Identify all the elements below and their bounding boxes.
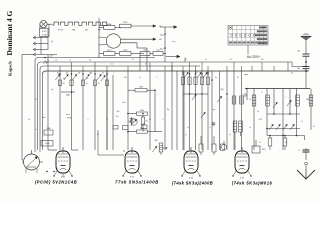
dial lamp L1 [40, 21, 47, 28]
pot P1 [131, 119, 137, 125]
tube V4 [235, 148, 249, 173]
svg-text:a-re: a-re [54, 60, 57, 62]
if2 string x241.5 [241, 71, 243, 150]
wire string x113 [113, 75, 118, 150]
T1 pins [26, 169, 37, 174]
coil L6 [240, 96, 244, 104]
rail bus right drop [184, 58, 186, 63]
tube V1 pins [53, 171, 72, 177]
table caption [247, 55, 261, 59]
svg-text:Гб: Гб [291, 73, 293, 75]
if string x183 [181, 71, 184, 150]
wire string x177 [176, 71, 178, 150]
IF transformer T3 [233, 121, 242, 150]
svg-text:10: 10 [237, 77, 239, 79]
earth arrow [297, 169, 315, 179]
right string x311 [309, 89, 313, 131]
if2 string x234 [233, 71, 235, 150]
resistor R50 [199, 136, 203, 155]
wire tube1 top [62, 147, 64, 150]
antenna lead [305, 40, 307, 50]
svg-text:2k: 2k [146, 121, 148, 123]
wire to U1 upper [99, 36, 106, 39]
resistor R41 [41, 141, 53, 147]
terminal arrow b [152, 38, 162, 41]
svg-text:5n: 5n [205, 59, 207, 61]
right bus [245, 88, 310, 90]
mid2 marks [211, 79, 228, 102]
right string x274 [273, 89, 278, 115]
rail bus 4 main [43, 71, 310, 150]
rail bus 3 [40, 66, 200, 70]
if2 string x219.5 [219, 71, 221, 150]
pickup input arrow 1 [33, 36, 48, 39]
svg-text:5n: 5n [116, 116, 118, 118]
node dot right1 [305, 61, 307, 63]
if string x208 [206, 71, 209, 150]
capacitor C40 [298, 148, 310, 160]
svg-text:2n: 2n [69, 60, 71, 62]
svg-text:2n: 2n [187, 127, 189, 129]
right string x254 [252, 89, 256, 151]
svg-text:a: a [172, 77, 173, 79]
label top right small [285, 142, 288, 144]
output transformer T4 [252, 140, 266, 153]
svg-text:1717: 1717 [107, 50, 113, 52]
resistor R23 [120, 50, 145, 56]
arrow mid right [166, 55, 180, 58]
trimmer arrows left [55, 74, 105, 81]
svg-text:пров: пров [244, 74, 248, 76]
svg-text:5k: 5k [257, 111, 259, 113]
if string x202 [200, 71, 203, 150]
coil L5 [232, 96, 236, 104]
svg-text:1012: 1012 [123, 22, 129, 24]
svg-text:≈40: ≈40 [124, 77, 127, 79]
svg-text:50: 50 [89, 60, 91, 62]
osc coupling [98, 130, 124, 155]
cap box C21 [113, 126, 118, 130]
antenna join bus [305, 71, 307, 89]
right bus link [305, 70, 307, 72]
bottom left dots [46, 168, 58, 172]
tube V3 pins [181, 171, 200, 177]
right link arrows [266, 124, 300, 130]
title text Kapsch [8, 61, 13, 76]
svg-text:1k: 1k [185, 59, 187, 61]
svg-text:50: 50 [28, 119, 30, 121]
wire string x172 [171, 66, 173, 150]
tuning string x83 [81, 71, 84, 150]
svg-text:6n: 6n [215, 77, 217, 79]
tube V2 label [115, 180, 159, 185]
heater chain with chokes [53, 22, 107, 25]
lamp label box [40, 29, 50, 37]
right string x247 [244, 88, 248, 100]
title text Dominant 4 G [5, 10, 14, 55]
svg-text:+2V: +2V [49, 56, 53, 58]
svg-text:0,5: 0,5 [230, 59, 233, 61]
wire to U1 lower [99, 44, 106, 47]
tuning string x107 [105, 71, 108, 150]
circle sym [222, 141, 227, 150]
svg-text:3: 3 [90, 73, 91, 75]
svg-text:PC92: PC92 [58, 30, 64, 32]
input bus vertical [47, 37, 49, 50]
tube V3 label [172, 181, 213, 186]
det link [128, 114, 143, 132]
wire string x165 lower [164, 72, 166, 150]
power drop 2 [137, 48, 147, 71]
wire string x155 [154, 89, 156, 131]
svg-text:1k: 1k [259, 142, 261, 144]
svg-text:6,3V: 6,3V [42, 31, 47, 33]
resistor R31 [137, 110, 148, 115]
mid link [183, 93, 208, 100]
terminal arrow a [152, 25, 162, 28]
svg-text:100k: 100k [140, 110, 144, 112]
tube V4 pins [232, 171, 251, 177]
resistor R52 [221, 144, 225, 151]
heater label 1 [58, 30, 64, 32]
tube V3 sublabel [189, 178, 194, 180]
svg-text:1n: 1n [139, 77, 141, 79]
svg-text:(PC06) 5V2N1C4B: (PC06) 5V2N1C4B [35, 180, 77, 185]
mid res labels [182, 72, 210, 74]
svg-text:2: 2 [60, 119, 61, 121]
wire grid caps [48, 149, 79, 151]
wire into V3 [190, 147, 192, 150]
label aE [297, 51, 300, 53]
tube V4 sublabel [240, 178, 245, 180]
svg-text:50: 50 [249, 99, 251, 101]
right link 1 [267, 113, 300, 115]
svg-text:Пр: Пр [167, 109, 169, 111]
svg-text:3ов: 3ов [43, 117, 46, 119]
wire string x107 [106, 71, 108, 150]
svg-text:für 220V~: für 220V~ [247, 55, 261, 59]
pickup input arrow 2 [33, 42, 48, 45]
left res labels [63, 83, 100, 85]
svg-text:A2A: A2A [107, 23, 112, 26]
resistor R24 [140, 50, 153, 56]
svg-text:25: 25 [86, 78, 88, 80]
AM/FM arrow top [160, 26, 177, 29]
wire table drop [247, 45, 249, 54]
switch S1 [44, 61, 49, 64]
svg-text:4: 4 [210, 127, 211, 129]
capacitor C31 [303, 62, 310, 71]
mid trim arrows [184, 72, 208, 78]
resistor R32 [141, 117, 147, 125]
svg-text:(74sk 5K3a)2400B: (74sk 5K3a)2400B [172, 181, 213, 186]
resistor R22 [120, 22, 153, 28]
svg-text:Г: Г [286, 97, 287, 99]
svg-text:25: 25 [145, 64, 147, 66]
svg-text:2n: 2n [102, 73, 104, 75]
svg-text:Dominant 4 G: Dominant 4 G [5, 10, 14, 55]
svg-text:6: 6 [163, 119, 164, 121]
rail bus 2 [38, 62, 307, 67]
switch S2 [305, 162, 308, 169]
tube V4 label [232, 181, 273, 186]
tuning string x60 [58, 71, 61, 150]
heater label 2 [72, 30, 76, 32]
lamp box drop wires [41, 29, 48, 55]
svg-text:30k: 30k [207, 72, 210, 74]
resistor R21 [99, 50, 119, 56]
right string x283 [282, 89, 284, 151]
resistor R51 [212, 136, 216, 155]
svg-text:b: b [36, 129, 37, 131]
label K [52, 40, 54, 44]
rail bus 1 [35, 56, 155, 62]
svg-text:5k: 5k [106, 119, 108, 121]
wire U1 out lower [121, 43, 137, 48]
right string x267 [266, 89, 270, 136]
svg-text:2: 2 [157, 77, 158, 79]
tube V1 [56, 148, 70, 173]
trimmer labels left [57, 73, 104, 81]
svg-text:0,1: 0,1 [111, 64, 114, 66]
tube V1 sublabel [61, 177, 66, 179]
svg-text:77sk 5N3a/1400B: 77sk 5N3a/1400B [115, 180, 159, 185]
wire string x184 [183, 71, 185, 150]
power drop 1 [139, 55, 141, 71]
svg-text:0,1A: 0,1A [42, 33, 47, 36]
svg-text:50k: 50k [182, 72, 185, 74]
svg-text:2к: 2к [149, 119, 151, 121]
left inner rail 2 [38, 66, 41, 153]
antenna A1 [301, 33, 312, 40]
bottom bus left [22, 152, 23, 160]
svg-text:(74sk 5K3a)M016: (74sk 5K3a)M016 [232, 181, 273, 186]
wire string x48 [47, 55, 49, 151]
wire lamp to filament line [47, 23, 53, 25]
right string x297 [296, 89, 300, 136]
IF transformer T2 [154, 140, 167, 155]
resistor R25 [153, 50, 166, 56]
svg-text:50: 50 [63, 83, 65, 85]
tube V1 label [35, 180, 77, 185]
pickup input arrow 4 [33, 53, 57, 56]
wire U1 out upper [121, 38, 152, 40]
tuning string x95 [93, 71, 96, 150]
label aE2 [297, 68, 300, 70]
svg-text:02: 02 [66, 73, 68, 75]
switch position table [228, 26, 268, 46]
if2 string x227 [226, 71, 228, 150]
svg-text:50: 50 [63, 78, 65, 80]
det dots [127, 113, 144, 133]
svg-text:4n: 4n [57, 73, 59, 75]
left inner rail [34, 61, 36, 152]
right string x290 [287, 89, 292, 115]
band switch stem [164, 27, 166, 62]
svg-text:0,1: 0,1 [301, 121, 304, 123]
svg-text:Kapsch: Kapsch [8, 61, 13, 76]
svg-text:50к: 50к [117, 111, 120, 113]
resistor R61 [283, 135, 287, 150]
svg-text:a: a [88, 119, 89, 121]
texture labels 1 [51, 73, 293, 122]
wire string x128 [127, 71, 129, 150]
tube V2 sublabel [130, 177, 135, 179]
wire into V4 [241, 147, 243, 150]
texture specks [28, 59, 303, 144]
left rail wire [22, 55, 33, 153]
diode D1 [128, 117, 134, 126]
pickup input arrow 3 [33, 48, 48, 51]
tube V2 [125, 148, 139, 173]
svg-text:31: 31 [313, 126, 315, 128]
cap box C22 [123, 126, 129, 130]
if string x195.5 [194, 71, 197, 150]
node dot right2 [305, 70, 307, 72]
wire lamp left stub [40, 24, 49, 28]
oscillator coil T1 [22, 150, 43, 170]
wire into V2 [124, 147, 132, 152]
resistor R60 [268, 135, 272, 150]
tube V3 [184, 148, 198, 173]
heater label 4 [98, 30, 102, 32]
tuning string x71.5 [70, 71, 73, 150]
cap C20 [201, 112, 215, 124]
if string x189.5 [188, 71, 191, 150]
svg-text:и щ: и щ [172, 41, 176, 43]
svg-text:k: k [114, 73, 115, 75]
power section left rail [98, 18, 100, 58]
svg-text:3ная: 3ная [66, 114, 70, 116]
svg-text:1k: 1k [86, 83, 88, 85]
svg-text:2k: 2k [98, 83, 100, 85]
if2 string x212 [211, 71, 213, 150]
texture labels 2 [35, 99, 231, 136]
svg-text:2n: 2n [249, 127, 251, 129]
wire string x150 [149, 71, 151, 150]
wiper into T2 [152, 146, 157, 152]
capacitor C30 [303, 50, 310, 62]
string riser ticks [60, 62, 288, 71]
label mid [122, 102, 126, 104]
svg-text:K: K [52, 40, 54, 44]
resistor R20 [99, 23, 121, 30]
svg-text:4n: 4n [132, 59, 134, 61]
link left strings [61, 91, 75, 96]
resistor R33 [128, 128, 162, 133]
bottom left label [43, 173, 45, 176]
right labels [261, 92, 315, 128]
heater label 3 [85, 30, 89, 32]
cap box C23 [142, 123, 148, 129]
rectifier U1 envelope [106, 34, 120, 48]
tube V2 pins [122, 171, 141, 177]
right link 2 [267, 135, 305, 140]
resistor R40 [44, 128, 53, 135]
resistor R30 [128, 87, 155, 92]
band labels [160, 35, 176, 51]
